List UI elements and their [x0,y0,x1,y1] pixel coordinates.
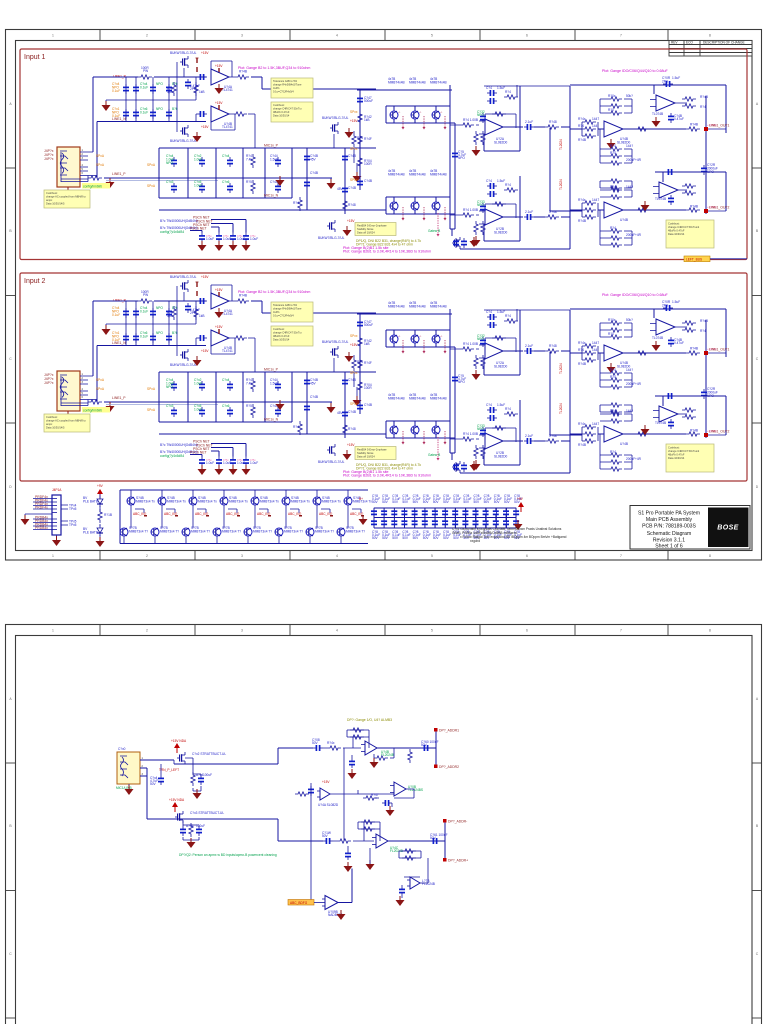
svg-text:DP?/Q2: Person an apmx w BD in: DP?/Q2: Person an apmx w BD inputs/apmx-… [179,853,277,857]
svg-text:1447: 1447 [592,198,599,202]
svg-text:R?4x: R?4x [578,117,586,121]
svg-text:50V: 50V [463,500,470,504]
svg-text:1: 1 [52,629,54,633]
svg-text:45V: 45V [310,157,317,161]
svg-text:config(?)/4x5dB4: config(?)/4x5dB4 [160,230,184,234]
svg-text:50V: 50V [312,741,319,745]
svg-text:TL2024: TL2024 [559,139,563,150]
svg-text:144?: 144? [626,144,633,148]
svg-text:TL4741: TL4741 [222,88,233,92]
svg-text:6: 6 [526,554,528,558]
svg-text:0.1uF: 0.1uF [112,114,120,118]
svg-text:2PU: 2PU [662,79,669,83]
svg-text:R?0x: R?0x [608,94,616,98]
svg-text:1.5uF: 1.5uF [497,86,505,90]
svg-text:R?4B: R?4B [239,70,247,74]
svg-text:change C4R/C47 50x7/unit: change C4R/C47 50x7/unit [668,225,699,229]
svg-text:R?4: R?4 [505,183,511,187]
svg-text:100R: 100R [141,66,149,70]
svg-text:0.47uF: 0.47uF [674,117,684,121]
svg-text:1.5uF: 1.5uF [270,157,278,161]
svg-text:50V: 50V [430,836,437,840]
svg-text:50V: 50V [504,500,511,504]
svg-text:0.1u=C?C/R4x5/4: 0.1u=C?C/R4x5/4 [273,90,294,94]
svg-text:Plot: Gange B2B1 to 3.0K,4R14: Plot: Gange B2B1 to 3.0K,4R14 to 10K,3BD… [343,250,431,254]
svg-text:MMBT4x4B: MMBT4x4B [409,80,426,84]
svg-text:C?x6: C?x6 [222,180,230,184]
svg-text:R?5: R?5 [246,180,252,184]
svg-text:Plot: Gange B2 to 1.5K,3BUF,Q: Plot: Gange B2 to 1.5K,3BUF,Q34 to 910oh… [238,66,310,70]
svg-text:MMBT4x4B: MMBT4x4B [430,80,447,84]
svg-text:1.0uF: 1.0uF [250,237,258,241]
svg-text:MMBT4x4B: MMBT4x4B [388,80,405,84]
svg-text:MMBT3x4 Tx: MMBT3x4 Tx [136,499,155,503]
svg-text:TPx5: TPx5 [69,523,77,527]
svg-text:4: 4 [336,554,338,558]
svg-text:R?1B: R?1B [104,513,112,517]
svg-text:R?48: R?48 [348,203,356,207]
svg-text:4BuFb 0.47uF: 4BuFb 0.47uF [273,110,290,114]
svg-text:8: 8 [709,34,711,38]
svg-text:1.0uF: 1.0uF [194,183,202,187]
svg-text:MMBT3x4 T?: MMBT3x4 T? [129,529,148,533]
svg-text:50V: 50V [494,500,501,504]
svg-text:PRDF4x: PRDF4x [35,505,48,509]
svg-text:MIC1x_N: MIC1x_N [264,194,279,198]
svg-text:6: 6 [526,629,528,633]
svg-text:BUKW7/BLG-7/UL: BUKW7/BLG-7/UL [170,139,197,143]
svg-text:1.0uF: 1.0uF [206,237,214,241]
svg-text:Sheet 1 of 6: Sheet 1 of 6 [655,544,683,550]
svg-text:R?47: R?47 [371,793,379,797]
svg-text:50V: 50V [453,536,460,540]
svg-text:TPx5: TPx5 [69,507,77,511]
svg-text:45V: 45V [337,187,344,191]
svg-text:7.4k: 7.4k [246,157,252,161]
svg-text:1.0uF: 1.0uF [194,157,202,161]
svg-text:2: 2 [146,629,148,633]
svg-text:SPxA: SPxA [147,163,156,167]
svg-text:50V: 50V [433,500,440,504]
svg-text:+15V: +15V [215,64,223,68]
svg-text:8: 8 [709,629,711,633]
svg-text:3: 3 [241,629,243,633]
svg-text:SL082D0: SL082D0 [494,140,508,144]
svg-text:50V: 50V [443,536,450,540]
svg-text:Cushbust:: Cushbust: [668,222,680,226]
svg-text:R?4 1.00B: R?4 1.00B [463,208,478,212]
svg-text:R?4F: R?4F [364,137,372,141]
svg-text:3: 3 [241,34,243,38]
svg-text:C?x3: C?x3 [166,180,174,184]
svg-text:R?4B: R?4B [700,95,708,99]
svg-text:50V: 50V [413,536,420,540]
svg-text:200uF+4R: 200uF+4R [626,158,642,162]
svg-text:50k?: 50k? [626,94,633,98]
svg-text:NPO: NPO [477,203,484,207]
svg-text:config/irmblrb: config/irmblrb [83,185,102,189]
svg-text:4: 4 [336,629,338,633]
svg-text:+9V: +9V [97,484,104,488]
svg-text:C?4B: C?4B [348,154,356,158]
svg-text:R?4B: R?4B [578,138,586,142]
svg-text:SPxx: SPxx [350,178,358,182]
svg-text:+15V: +15V [322,780,330,784]
svg-text:50V: 50V [423,500,430,504]
svg-text:+15V NDA: +15V NDA [171,739,187,743]
svg-text:50V: 50V [474,500,481,504]
svg-text:MMBT4x4B: MMBT4x4B [388,172,405,176]
svg-text:+15V: +15V [201,51,209,55]
svg-text:50V: 50V [402,500,409,504]
svg-text:DP?_ADDR-: DP?_ADDR- [448,820,467,824]
svg-text:1: 1 [52,34,54,38]
svg-text:MMBT4x4B: MMBT4x4B [430,172,447,176]
svg-text:R?4: R?4 [610,144,616,148]
svg-text:RexB54 5-Error-2mphase: RexB54 5-Error-2mphase [357,224,387,228]
svg-text:R?4x: R?4x [578,198,586,202]
svg-text:C?4B: C?4B [348,186,356,190]
svg-text:50V: 50V [402,536,409,540]
svg-text:50V: 50V [382,500,389,504]
svg-text:7: 7 [620,34,622,38]
svg-text:1: 1 [52,554,54,558]
svg-text:Input 1: Input 1 [24,54,46,61]
svg-text:LINE1_OUT2: LINE1_OUT2 [709,206,729,210]
svg-text:FL2024B: FL2024B [381,753,394,757]
svg-text:2: 2 [146,554,148,558]
svg-text:SPxA: SPxA [147,184,156,188]
svg-text:1.0uF: 1.0uF [223,237,231,241]
svg-text:50V: 50V [484,500,491,504]
svg-text:ABC_BDFG: ABC_BDFG [290,901,308,905]
svg-text:LEFT_BUS: LEFT_BUS [686,257,702,261]
svg-text:change AC-coupled from MB4/8 t: change AC-coupled from MB4/8 to [46,195,86,199]
svg-text:3: 3 [241,554,243,558]
svg-text:50V: 50V [392,536,399,540]
svg-text:NPO: NPO [156,82,163,86]
svg-text:Cushbust:: Cushbust: [46,191,58,195]
svg-text:5: 5 [431,629,433,633]
svg-text:Plot: Gange IDO/C06/Q44/Q10 t: Plot: Gange IDO/C06/Q44/Q10 to 0.68uF [602,69,669,73]
svg-text:R?4: R?4 [610,226,616,230]
svg-text:R?4: R?4 [505,90,511,94]
svg-text:C?4B: C?4B [310,171,318,175]
svg-text:0.1uF: 0.1uF [112,89,120,93]
svg-text:Stability Noise: Stability Noise [357,227,374,231]
svg-text:50V: 50V [453,500,460,504]
svg-text:NPO: NPO [477,113,484,117]
svg-text:TRN_P_LEFT: TRN_P_LEFT [159,768,179,772]
svg-text:50V: 50V [150,782,157,786]
svg-text:Tolerance A4B to 5%: Tolerance A4B to 5% [273,79,298,83]
svg-text:DP?: Gange 1/O, U4? ALMB3: DP?: Gange 1/O, U4? ALMB3 [347,718,392,722]
svg-text:6: 6 [526,34,528,38]
svg-text:U?4A SL082D: U?4A SL082D [318,803,339,807]
svg-text:0.1uF: 0.1uF [140,111,148,115]
svg-text:PLE BATB: PLE BATB [83,530,98,534]
svg-text:50V: 50V [382,536,389,540]
svg-text:LINE1_P: LINE1_P [112,172,126,176]
svg-text:R?4: R?4 [293,201,299,205]
svg-text:50V: 50V [372,536,379,540]
svg-text:100uF: 100uF [203,773,212,777]
svg-text:xxgcbd: xxgcbd [470,539,480,543]
svg-text:8: 8 [709,554,711,558]
svg-text:Data off 10/024: Data off 10/024 [357,231,375,235]
svg-text:LINE1_OUT1: LINE1_OUT1 [709,124,729,128]
svg-text:DP?_ADDR+: DP?_ADDR+ [448,859,468,863]
svg-text:4: 4 [336,34,338,38]
svg-text:Data 10/30/14/5: Data 10/30/14/5 [46,202,65,206]
svg-text:50V: 50V [372,500,379,504]
svg-text:J4P1A: J4P1A [52,488,62,492]
svg-text:C?x2 STRATTBUCT-UL: C?x2 STRATTBUCT-UL [192,752,226,756]
svg-text:BUKW7/BLG-7/UL: BUKW7/BLG-7/UL [170,51,197,55]
svg-text:ECO: ECO [686,41,693,45]
svg-text:R?4: R?4 [578,124,584,128]
svg-text:PLE BATB: PLE BATB [83,499,98,503]
svg-text:NPO: NPO [166,161,173,165]
svg-text:7: 7 [620,629,622,633]
svg-text:4BuFb 0.47uF: 4BuFb 0.47uF [668,229,685,233]
svg-text:SPxA: SPxA [96,163,105,167]
svg-text:BOSE: BOSE [717,525,738,532]
svg-text:R?4 1.00B: R?4 1.00B [463,118,478,122]
svg-text:Gatew B: Gatew B [428,229,440,233]
svg-text:change R4x5/B4x5/Tune: change R4x5/B4x5/Tune [273,83,302,87]
svg-text:SPxA: SPxA [96,154,105,158]
svg-text:B+: B+ [359,497,363,501]
svg-text:J4P?x: J4P?x [44,157,54,161]
svg-text:2.1uF: 2.1uF [525,120,533,124]
svg-text:TL2024: TL2024 [559,179,563,190]
svg-text:100R: 100R [364,162,372,166]
svg-text:+15V: +15V [347,219,355,223]
svg-text:50V: 50V [443,500,450,504]
svg-text:DP?_ADDR1: DP?_ADDR1 [439,729,459,733]
svg-text:200uF+4R: 200uF+4R [626,233,642,237]
svg-text:+9V: +9V [517,497,524,501]
svg-text:TL074B: TL074B [652,112,663,116]
svg-text:2Pb: 2Pb [190,87,196,91]
svg-text:DP?_ADDR2: DP?_ADDR2 [439,765,459,769]
svg-text:Cushbust:: Cushbust: [273,103,285,107]
svg-text:PRDB4x: PRDB4x [35,526,48,530]
svg-text:BUKW7/BLG-7/UL: BUKW7/BLG-7/UL [318,236,345,240]
svg-text:SPxx: SPxx [350,147,358,151]
svg-text:1.0uF: 1.0uF [237,237,245,241]
svg-text:R?0: R?0 [608,108,614,112]
svg-text:NPO: NPO [156,107,163,111]
svg-text:Input 2: Input 2 [24,278,46,285]
svg-text:500uF: 500uF [364,99,373,103]
svg-text:Data 10/30/14: Data 10/30/14 [668,232,685,236]
svg-text:DESCRIPTION OF CHANGE: DESCRIPTION OF CHANGE [703,41,745,45]
svg-text:U?4B: U?4B [620,218,628,222]
svg-text:50V: 50V [322,834,329,838]
svg-text:50V: 50V [423,536,430,540]
svg-text:R?48: R?48 [549,120,557,124]
svg-text:50V: 50V [433,536,440,540]
svg-text:change C4R/C47 50x7/u: change C4R/C47 50x7/u [273,107,302,111]
svg-text:5M: 5M [167,90,172,94]
svg-text:1kB: 1kB [199,90,205,94]
svg-text:50V: 50V [421,743,428,747]
svg-text:R?4x: R?4x [327,741,335,745]
svg-text:0.1uF: 0.1uF [140,86,148,90]
svg-text:1447: 1447 [592,117,599,121]
svg-text:C?x3 STRATTBUCT-UL: C?x3 STRATTBUCT-UL [190,811,224,815]
svg-text:REV: REV [671,41,678,45]
svg-text:Schematic Diagram: Schematic Diagram [647,531,691,537]
svg-text:S1 Pro Portable PA System: S1 Pro Portable PA System [638,511,700,517]
svg-text:5: 5 [431,554,433,558]
svg-text:R?4B: R?4B [578,219,586,223]
svg-text:Main PCB Assembly: Main PCB Assembly [646,517,693,523]
svg-text:TL074B: TL074B [655,197,666,201]
svg-text:C?4B: C?4B [364,179,372,183]
svg-text:Data 10/30/14: Data 10/30/14 [273,114,290,118]
svg-text:C?4: C?4 [486,179,492,183]
svg-text:C?4: C?4 [486,86,492,90]
svg-text:BUKW7/BLG-7/UL: BUKW7/BLG-7/UL [322,116,349,120]
svg-text:2: 2 [146,34,148,38]
svg-text:+15V NDA: +15V NDA [169,798,185,802]
svg-text:+15V: +15V [215,101,223,105]
svg-text:R?4B: R?4B [690,123,698,127]
svg-text:R?4: R?4 [610,151,616,155]
svg-text:R?4: R?4 [700,105,706,109]
svg-text:C?x0: C?x0 [118,747,126,751]
svg-text:5: 5 [431,34,433,38]
svg-text:1kB: 1kB [364,118,370,122]
svg-text:SPxx: SPxx [350,110,358,114]
svg-text:PCB P/N: 788189-003S: PCB P/N: 788189-003S [642,524,696,530]
svg-text:50V: 50V [413,500,420,504]
svg-text:1.5uF: 1.5uF [497,179,505,183]
svg-text:2.1uF: 2.1uF [525,210,533,214]
svg-text:144: 144 [592,124,598,128]
svg-text:4x4%: 4x4% [273,86,280,90]
svg-text:+15V: +15V [201,125,209,129]
svg-text:1.5uF: 1.5uF [672,76,680,80]
svg-text:C?x4: C?x4 [222,154,230,158]
svg-text:R?4B: R?4B [690,205,698,209]
svg-text:MMBT4x4B: MMBT4x4B [409,172,426,176]
svg-text:PSCh NET: PSCh NET [190,227,207,231]
svg-text:TL4741: TL4741 [222,125,233,129]
svg-text:7: 7 [620,554,622,558]
svg-text:50V: 50V [392,500,399,504]
svg-text:MIC1x_P: MIC1x_P [264,144,279,148]
svg-text:NPO: NPO [458,156,465,160]
svg-text:SL082D0: SL082D0 [494,230,508,234]
